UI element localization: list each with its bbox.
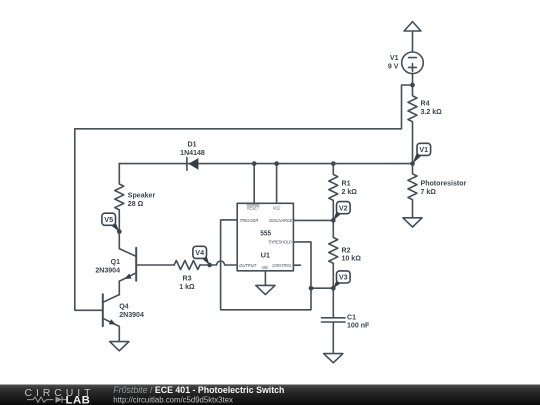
- wire TRIGGER-THRESHOLD loop: [221, 220, 311, 310]
- svg-text:7 kΩ: 7 kΩ: [421, 189, 437, 196]
- svg-text:2N3904: 2N3904: [119, 312, 144, 319]
- wire from source junction to left rail and Q4 base: [75, 85, 413, 310]
- node flags: [102, 143, 431, 288]
- svg-text:http://circuitlab.com/c5d9d5kt: http://circuitlab.com/c5d9d5ktx3tex: [113, 396, 233, 405]
- node symbol (up triangle) at top of V1: [404, 22, 421, 31]
- wire RESET drop: [253, 164, 255, 204]
- svg-text:V3: V3: [339, 273, 348, 282]
- svg-text:LAB: LAB: [66, 394, 91, 405]
- svg-text:V2: V2: [339, 203, 348, 212]
- svg-text:100 nF: 100 nF: [347, 323, 370, 330]
- wire Q1 base: [136, 264, 174, 266]
- junction RESET: [252, 161, 257, 166]
- wire: [412, 31, 414, 52]
- diode D1: [187, 157, 199, 170]
- svg-text:Q1: Q1: [111, 259, 120, 266]
- resistor R4: [408, 85, 417, 164]
- wire THRESHOLD branch to V3 node: [311, 287, 333, 289]
- svg-text:R2: R2: [342, 247, 351, 254]
- svg-text:OUTPUT: OUTPUT: [239, 263, 257, 269]
- node flag V3: [333, 271, 350, 288]
- wire 555 GND: [264, 271, 266, 285]
- svg-text:C1: C1: [347, 314, 356, 321]
- svg-text:R1: R1: [342, 181, 351, 188]
- svg-text:Photoresistor: Photoresistor: [421, 181, 467, 188]
- svg-text:THRESHOLD: THRESHOLD: [268, 240, 292, 246]
- svg-text:1N4148: 1N4148: [180, 150, 205, 157]
- photoresistor: [408, 164, 417, 218]
- resistor R1: [329, 164, 338, 221]
- svg-text:Fr0stbite / ECE 401 - Photoele: Fr0stbite / ECE 401 - Photoelectric Swit…: [113, 385, 284, 395]
- junction R1 top: [331, 161, 336, 166]
- node flag V1: [413, 143, 431, 163]
- transistor Q1: [119, 248, 136, 281]
- wire Q4 emitter down: [118, 326, 120, 341]
- resistor R2: [329, 220, 338, 288]
- svg-text:U1: U1: [261, 251, 270, 260]
- junction node V2: [331, 218, 336, 223]
- speaker (resistor symbol): [115, 164, 124, 249]
- junction node V4: [207, 263, 212, 268]
- junction VCC: [274, 161, 279, 166]
- svg-text:D1: D1: [187, 142, 196, 149]
- svg-text:RESET: RESET: [247, 205, 260, 211]
- ground: [403, 218, 422, 227]
- node flag V4: [193, 246, 210, 265]
- wire DISCHARGE: [293, 219, 333, 221]
- IC U1 555 box: [237, 203, 293, 270]
- svg-text:Q4: Q4: [119, 304, 128, 311]
- junction node V3: [331, 286, 336, 291]
- junction node V1: [410, 161, 415, 166]
- svg-text:1 kΩ: 1 kΩ: [179, 284, 195, 291]
- wire: [412, 74, 414, 85]
- node flag V2: [333, 202, 350, 221]
- svg-text:9 V: 9 V: [388, 63, 399, 70]
- wire R3 to 555 OUTPUT with hop: [200, 261, 237, 265]
- node flag V5: [102, 213, 119, 231]
- capacitor C1: [322, 288, 346, 353]
- svg-text:2 kΩ: 2 kΩ: [342, 189, 358, 196]
- svg-text:28 Ω: 28 Ω: [128, 201, 144, 208]
- wire CONTROL stub: [293, 264, 300, 266]
- svg-text:V1: V1: [390, 55, 399, 62]
- svg-text:TRIGGER: TRIGGER: [240, 218, 259, 224]
- wire Q1 emitter to Q4 collector: [118, 281, 120, 294]
- CircuitLab logo resistor-diode squiggle: [27, 397, 67, 403]
- svg-text:Speaker: Speaker: [128, 193, 156, 200]
- svg-text:CONTROL: CONTROL: [272, 263, 292, 269]
- main horizontal wire: [119, 163, 412, 165]
- svg-text:V1: V1: [419, 145, 428, 154]
- junction node V5: [117, 229, 122, 234]
- svg-text:555: 555: [260, 229, 271, 238]
- svg-text:R4: R4: [421, 101, 430, 108]
- voltage source V1: [402, 52, 424, 74]
- svg-text:V4: V4: [195, 248, 204, 257]
- junction at source bottom: [410, 83, 415, 88]
- svg-text:DISCHARGE: DISCHARGE: [269, 218, 293, 224]
- junction THRESHOLD branch: [309, 286, 314, 291]
- wire VCC drop: [276, 164, 278, 204]
- footer bar: [0, 385, 540, 405]
- ground: [256, 285, 275, 294]
- ground: [110, 342, 129, 351]
- svg-text:2N3904: 2N3904: [95, 267, 120, 274]
- ground: [324, 354, 343, 363]
- 555 pin labels: [239, 205, 293, 271]
- svg-text:GND: GND: [262, 265, 268, 271]
- svg-text:10 kΩ: 10 kΩ: [342, 256, 362, 263]
- transistor Q4: [103, 294, 120, 326]
- svg-text:V5: V5: [104, 215, 113, 224]
- resistor R3: [174, 261, 200, 270]
- svg-text:VCC: VCC: [273, 205, 281, 211]
- svg-text:3.2 kΩ: 3.2 kΩ: [421, 109, 443, 116]
- svg-text:R3: R3: [182, 276, 191, 283]
